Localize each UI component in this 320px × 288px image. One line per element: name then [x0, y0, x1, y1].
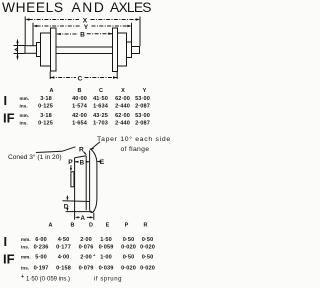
svg-text:0·236: 0·236 [34, 245, 49, 251]
flange root line [85, 156, 87, 210]
dim Y line with arrows [37, 25, 80, 27]
left hub [37, 43, 41, 57]
svg-text:0·158: 0·158 [56, 266, 71, 272]
dim X extension lines [25, 17, 140, 47]
svg-text:+: + [21, 274, 24, 280]
svg-text:R: R [144, 222, 148, 228]
svg-text:4·50: 4·50 [58, 237, 70, 243]
svg-text:1·634: 1·634 [93, 104, 109, 110]
svg-text:5·00: 5·00 [35, 255, 47, 261]
svg-text:0·177: 0·177 [56, 245, 71, 251]
dim A vertical at left [17, 40, 19, 60]
table 2 row IF mm [21, 253, 153, 261]
dim A witness lines [75, 206, 94, 220]
svg-text:Taper 10° each side: Taper 10° each side [97, 135, 171, 143]
svg-text:IF: IF [3, 252, 15, 267]
svg-text:Y: Y [143, 88, 147, 94]
svg-text:of flange: of flange [121, 146, 150, 153]
step rectangle on front face [71, 172, 74, 187]
svg-text:0·50: 0·50 [123, 255, 135, 261]
left axle stub [25, 46, 37, 54]
svg-text:WHEELS: WHEELS [2, 0, 64, 15]
dim A line with arrows [79, 216, 90, 218]
svg-text:1·703: 1·703 [93, 121, 108, 127]
svg-text:I: I [4, 234, 8, 249]
table 1 row IF mm [20, 113, 150, 119]
svg-text:0·076: 0·076 [79, 245, 94, 251]
svg-text:A: A [49, 222, 53, 228]
right axle stub [132, 47, 140, 54]
svg-text:53·00: 53·00 [135, 113, 150, 119]
svg-text:0·020: 0·020 [140, 245, 155, 251]
svg-text:P: P [68, 159, 73, 166]
left flange [51, 28, 57, 71]
svg-text:2·440: 2·440 [115, 104, 130, 110]
label Taper 10 deg each side of flange [97, 135, 171, 153]
svg-text:Coned 3° (1 in 20): Coned 3° (1 in 20) [8, 153, 62, 161]
svg-text:IF: IF [3, 110, 15, 125]
table 2 header row [49, 222, 148, 228]
table 1 row I ins [20, 103, 150, 109]
svg-text:62·00: 62·00 [115, 113, 130, 119]
table 2 row I ins [21, 244, 155, 250]
right hub [127, 42, 132, 58]
R leader arrow [84, 152, 86, 154]
svg-text:2·00: 2·00 [80, 237, 92, 243]
svg-text:2·087: 2·087 [135, 121, 150, 127]
dim C witness lines [50, 72, 117, 80]
svg-text:0·50: 0·50 [142, 237, 154, 243]
svg-text:1·654: 1·654 [72, 121, 88, 127]
wheel profile front face [74, 158, 76, 206]
dim Y extension lines [33, 23, 132, 46]
svg-text:E: E [106, 222, 110, 228]
svg-text:2·087: 2·087 [135, 104, 150, 110]
svg-text:6·00: 6·00 [35, 237, 47, 243]
svg-text:A: A [80, 215, 85, 222]
svg-text:42·00: 42·00 [72, 113, 87, 119]
svg-text:0·039: 0·039 [99, 266, 114, 272]
svg-text:Y: Y [84, 24, 89, 31]
coned leader line [36, 147, 76, 153]
svg-text:62·00: 62·00 [115, 96, 130, 102]
svg-text:0·125: 0·125 [38, 104, 53, 110]
svg-text:AXLES: AXLES [110, 0, 151, 15]
tread top line [75, 156, 87, 158]
svg-text:43·25: 43·25 [93, 113, 108, 119]
P leader arrow down [70, 165, 72, 169]
svg-text:41·50: 41·50 [93, 96, 108, 102]
svg-text:40·00: 40·00 [72, 96, 87, 102]
svg-text:ins.: ins. [21, 244, 29, 249]
svg-text:0·020: 0·020 [140, 266, 155, 272]
svg-text:0·020: 0·020 [121, 245, 136, 251]
taper leader with arrow [91, 142, 100, 149]
svg-text:0·125: 0·125 [38, 121, 53, 127]
svg-text:C: C [99, 88, 103, 94]
svg-text:3·18: 3·18 [40, 96, 52, 102]
table 1 row IF ins [20, 120, 150, 126]
dim X line with arrows [29, 19, 79, 21]
svg-text:mm.: mm. [20, 113, 30, 118]
svg-text:mm.: mm. [21, 237, 31, 242]
svg-text:ins.: ins. [21, 265, 29, 270]
svg-text:ins.: ins. [20, 103, 28, 108]
svg-text:B: B [78, 88, 82, 94]
svg-text:ins.: ins. [20, 120, 28, 125]
footnote [21, 274, 122, 282]
table 1 row I mm [20, 96, 150, 102]
svg-text:1·00: 1·00 [100, 255, 112, 261]
svg-text:0·079: 0·079 [79, 266, 94, 272]
right wheel disc [118, 33, 127, 66]
dim C line with arrows [50, 77, 76, 79]
svg-text:P: P [125, 222, 129, 228]
svg-text:if sprung: if sprung [94, 276, 122, 282]
svg-text:0·50: 0·50 [123, 237, 135, 243]
left wheel disc [41, 33, 51, 66]
svg-text:A: A [50, 88, 54, 94]
dim B line with arrows [57, 33, 78, 35]
svg-text:53·00: 53·00 [135, 96, 150, 102]
svg-text:E: E [100, 159, 105, 166]
svg-text:AND: AND [72, 0, 106, 15]
axle [56, 47, 113, 54]
svg-text:+: + [93, 253, 96, 258]
svg-text:1·50 (0·059 ins.): 1·50 (0·059 ins.) [26, 276, 70, 282]
svg-text:B: B [80, 32, 85, 39]
svg-text:D: D [89, 222, 93, 228]
svg-text:0·059: 0·059 [99, 245, 114, 251]
svg-text:mm.: mm. [21, 254, 31, 259]
table 2 row IF ins [21, 265, 155, 271]
svg-text:4·00: 4·00 [58, 255, 70, 261]
svg-text:D: D [64, 203, 69, 210]
svg-text:3·18: 3·18 [40, 113, 52, 119]
svg-text:0·197: 0·197 [34, 266, 49, 272]
svg-text:2·440: 2·440 [115, 121, 130, 127]
svg-text:X: X [121, 88, 125, 94]
dim D arrows [66, 196, 68, 198]
svg-text:C: C [78, 75, 83, 82]
table 1 header row [50, 88, 147, 94]
svg-text:I: I [4, 93, 8, 108]
dim D witness lines [62, 201, 92, 212]
svg-text:R: R [79, 147, 84, 154]
svg-text:1·574: 1·574 [72, 104, 88, 110]
flange outline [90, 149, 97, 213]
svg-text:0·020: 0·020 [121, 266, 136, 272]
svg-text:B: B [80, 159, 85, 166]
svg-text:2·00: 2·00 [80, 255, 92, 261]
svg-text:mm.: mm. [20, 96, 30, 101]
svg-text:0·50: 0·50 [142, 255, 154, 261]
svg-text:1·50: 1·50 [100, 237, 112, 243]
dim B tread width [75, 161, 89, 163]
label A chevron [15, 48, 18, 52]
svg-text:B: B [71, 222, 75, 228]
table 2 row I mm [21, 237, 153, 243]
title WHEELS AND AXLES [2, 0, 151, 15]
dim E flange thickness [97, 161, 99, 163]
right flange [113, 28, 118, 72]
